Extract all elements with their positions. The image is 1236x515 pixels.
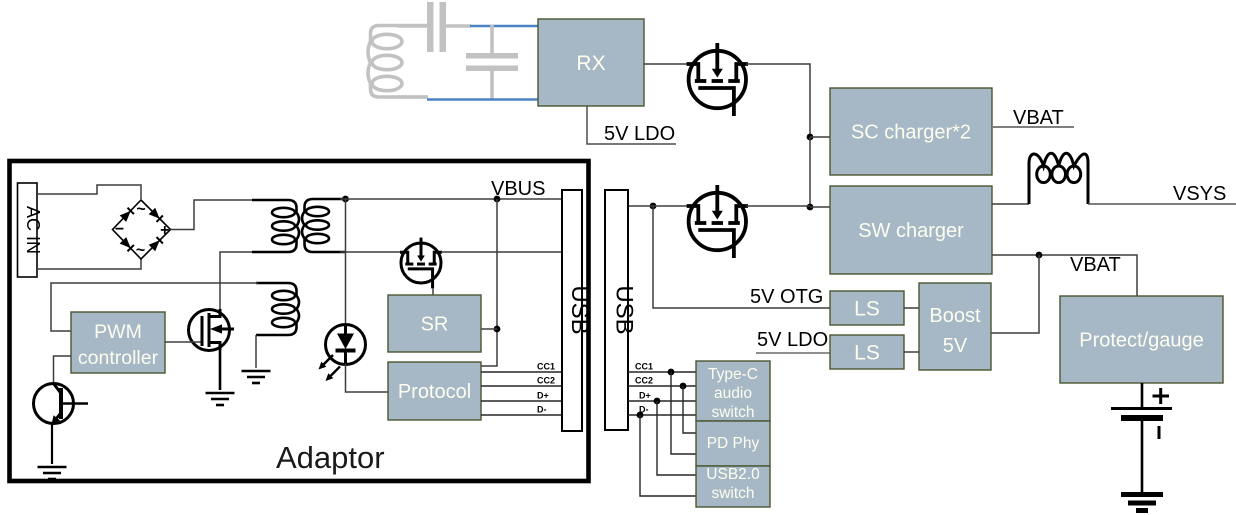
bridge rectifier D1 diamond	[113, 200, 171, 259]
block Protocol	[388, 362, 481, 420]
block PWM controller	[71, 312, 165, 373]
pass MOSFET Q2 (USB path)	[687, 185, 748, 258]
wire VBUS rail	[340, 198, 562, 200]
wire Q2 to charger rail	[746, 205, 810, 207]
wire Q5 gate to SR	[432, 288, 434, 295]
junction D+ tap	[654, 398, 661, 405]
svg-text:PD Phy: PD Phy	[707, 435, 760, 452]
junction charger input / SC charger	[807, 134, 814, 141]
wire Q4 emitter to ground	[51, 423, 53, 464]
svg-text:switch: switch	[711, 485, 754, 502]
bridge diode top-left	[120, 208, 134, 222]
wire SW charger to inductor	[992, 203, 1029, 205]
parallel capacitor C2 (gray plates)	[466, 53, 518, 71]
block LS (load switch, OTG)	[830, 291, 904, 325]
AC IN connector box	[18, 183, 44, 277]
wire top node to RX (blue)	[470, 25, 538, 27]
wire to SC charger	[810, 136, 830, 138]
wire USB to Q2	[628, 205, 690, 207]
wire rail to SW charger	[810, 206, 830, 208]
wire PWM to Q4 collector	[54, 356, 72, 384]
RX receiver coil L1 (gray)	[368, 26, 427, 98]
block LS (load switch, LDO)	[830, 335, 904, 369]
svg-text:PWM: PWM	[94, 321, 142, 343]
junction CC2 tap	[680, 383, 687, 390]
wire D+ protocol to USB	[481, 400, 562, 402]
svg-text:Type-C: Type-C	[708, 366, 758, 383]
svg-text:Protocol: Protocol	[398, 381, 471, 403]
svg-text:~: ~	[136, 201, 145, 218]
battery plus sign	[1153, 388, 1170, 404]
wire RX 5V LDO stub down	[587, 106, 676, 144]
svg-text:VBAT: VBAT	[1013, 107, 1064, 129]
junction charger input / SW charger	[807, 204, 814, 211]
svg-text:CC2: CC2	[537, 376, 555, 386]
USB connector (adaptor side)	[562, 190, 593, 431]
ground (aux winding)	[242, 371, 271, 383]
block USB2.0 switch	[696, 466, 770, 507]
wire D- protocol to USB	[481, 414, 562, 416]
parallel cap top stem (gray)	[490, 25, 494, 54]
transformer primary winding	[252, 200, 299, 252]
svg-text:VSYS: VSYS	[1173, 183, 1226, 205]
block SC charger*2	[830, 88, 992, 175]
bridge diode bottom-left	[120, 237, 134, 251]
svg-text:5V: 5V	[943, 335, 968, 357]
wire LED to Protocol	[346, 364, 389, 392]
wire USB node to 5V OTG LS	[653, 206, 830, 308]
wire D+ USB to switch	[628, 400, 696, 402]
wire CC1 to PD Phy	[671, 372, 696, 454]
svg-text:USB: USB	[566, 285, 593, 334]
svg-text:D+: D+	[537, 391, 549, 401]
series capacitor C1 (gray plates)	[427, 2, 446, 52]
bridge diode top-right	[149, 208, 163, 222]
wire aux bottom to ground	[255, 335, 257, 368]
pass MOSFET Q1 (RX path)	[687, 43, 748, 116]
svg-text:~: ~	[136, 242, 145, 259]
svg-text:SC charger*2: SC charger*2	[851, 122, 971, 144]
svg-text:SR: SR	[421, 314, 449, 336]
svg-text:AC IN: AC IN	[23, 206, 43, 254]
block Boost 5V	[919, 283, 991, 370]
ground (Q3 source)	[206, 393, 235, 405]
wire CC2 to PD Phy	[683, 386, 696, 433]
wire CC1 protocol to USB	[481, 371, 562, 373]
wire D- to USB2.0 switch	[640, 415, 696, 496]
svg-text:Adaptor: Adaptor	[276, 440, 385, 475]
svg-text:LS: LS	[854, 297, 880, 320]
wire VBAT node to boost output	[991, 255, 1039, 333]
wire primary bottom to Q3 drain	[220, 252, 252, 312]
svg-text:audio: audio	[714, 385, 752, 402]
svg-text:+: +	[160, 222, 169, 239]
wire coil bottom (gray)	[398, 95, 428, 99]
svg-text:5V LDO: 5V LDO	[604, 123, 675, 145]
wire D+ to USB2.0 switch	[657, 401, 696, 475]
sync-rect MOSFET Q5	[400, 238, 442, 289]
wire CC2 USB to switch	[628, 385, 696, 387]
wire bridge + to primary	[171, 200, 289, 230]
output inductor L2	[1029, 153, 1088, 204]
junction VBUS / SR rail	[494, 196, 501, 203]
svg-text:D-: D-	[537, 405, 547, 415]
wire bottom node to RX (blue)	[427, 98, 538, 100]
svg-text:−: −	[115, 221, 124, 238]
svg-text:VBAT: VBAT	[1070, 254, 1121, 276]
svg-text:5V OTG: 5V OTG	[750, 286, 823, 308]
svg-text:LS: LS	[854, 341, 880, 364]
svg-text:switch: switch	[711, 404, 754, 421]
wire Q5 to USB	[441, 251, 562, 253]
wire CC1 USB to switch	[628, 371, 696, 373]
wire inductor to VSYS	[1088, 203, 1236, 205]
wire AC IN bottom to bridge	[37, 259, 141, 269]
wire LS2 to Boost	[904, 351, 919, 353]
switching MOSFET Q3	[165, 309, 234, 351]
wire 5V LDO to LS2	[756, 352, 830, 354]
bridge diode bottom-right	[149, 237, 163, 251]
svg-text:USB2.0: USB2.0	[706, 466, 760, 483]
block SW charger	[830, 186, 992, 274]
svg-text:CC1: CC1	[537, 362, 555, 372]
junction secondary top / LED tap	[342, 196, 349, 203]
wire SC charger VBAT output	[992, 126, 1074, 128]
wire Q1 to charger input rail	[746, 64, 810, 134]
ground (battery)	[1121, 495, 1163, 511]
junction USB VBUS node	[650, 203, 657, 210]
svg-text:Boost: Boost	[929, 305, 981, 327]
svg-text:SW charger: SW charger	[858, 220, 964, 242]
wire battery to ground	[1141, 421, 1144, 492]
adaptor enclosure box	[10, 161, 589, 481]
junction CC1 tap	[668, 369, 675, 376]
wire protect to battery	[1141, 383, 1144, 408]
wire SR rail vertical	[481, 199, 497, 366]
block RX (wireless receiver)	[538, 19, 644, 106]
wire SW charger to VBAT node	[992, 255, 1137, 296]
wire AC IN top to bridge	[37, 185, 141, 199]
wire input rail down	[809, 137, 811, 207]
opto LED D2	[319, 325, 366, 382]
wire series cap to node (gray)	[446, 24, 471, 28]
wire CC2 protocol to USB	[481, 385, 562, 387]
battery cell BT1	[1111, 409, 1172, 419]
svg-text:RX: RX	[576, 52, 605, 75]
block Protect/gauge	[1060, 296, 1223, 383]
svg-text:VBUS: VBUS	[491, 178, 545, 200]
wire SR block to rail	[481, 328, 497, 330]
parallel cap bottom stem (gray)	[490, 70, 494, 100]
svg-text:USB: USB	[611, 285, 638, 334]
transformer secondary winding	[302, 199, 345, 252]
wire coil top to series cap (gray)	[398, 24, 427, 28]
battery minus sign	[1158, 426, 1161, 439]
USB connector (device side)	[605, 190, 638, 430]
block Type-C audio switch	[696, 361, 770, 421]
wire secondary bottom to SR fet	[340, 251, 402, 253]
svg-text:D+: D+	[639, 391, 651, 401]
wire Q3 source to ground	[219, 348, 222, 390]
wire D- USB to switch	[628, 414, 696, 416]
wire VBUS tap to LED	[345, 199, 347, 325]
svg-text:5V LDO: 5V LDO	[757, 329, 828, 351]
block SR	[388, 295, 481, 352]
wire LS1 to Boost	[904, 307, 919, 309]
transistor Q4	[34, 384, 89, 425]
junction SR output	[494, 326, 501, 333]
ground (Q4 emitter)	[38, 467, 67, 479]
junction D- tap	[637, 412, 644, 419]
wire RX to Q1	[644, 63, 690, 65]
wire aux top to feedback rail	[51, 283, 258, 331]
junction VBAT node	[1036, 252, 1043, 259]
svg-text:CC2: CC2	[635, 376, 653, 386]
svg-text:controller: controller	[78, 347, 159, 369]
svg-text:Protect/gauge: Protect/gauge	[1079, 330, 1204, 352]
transformer aux winding	[256, 283, 299, 335]
block PD Phy	[696, 421, 770, 466]
svg-text:CC1: CC1	[635, 362, 653, 372]
